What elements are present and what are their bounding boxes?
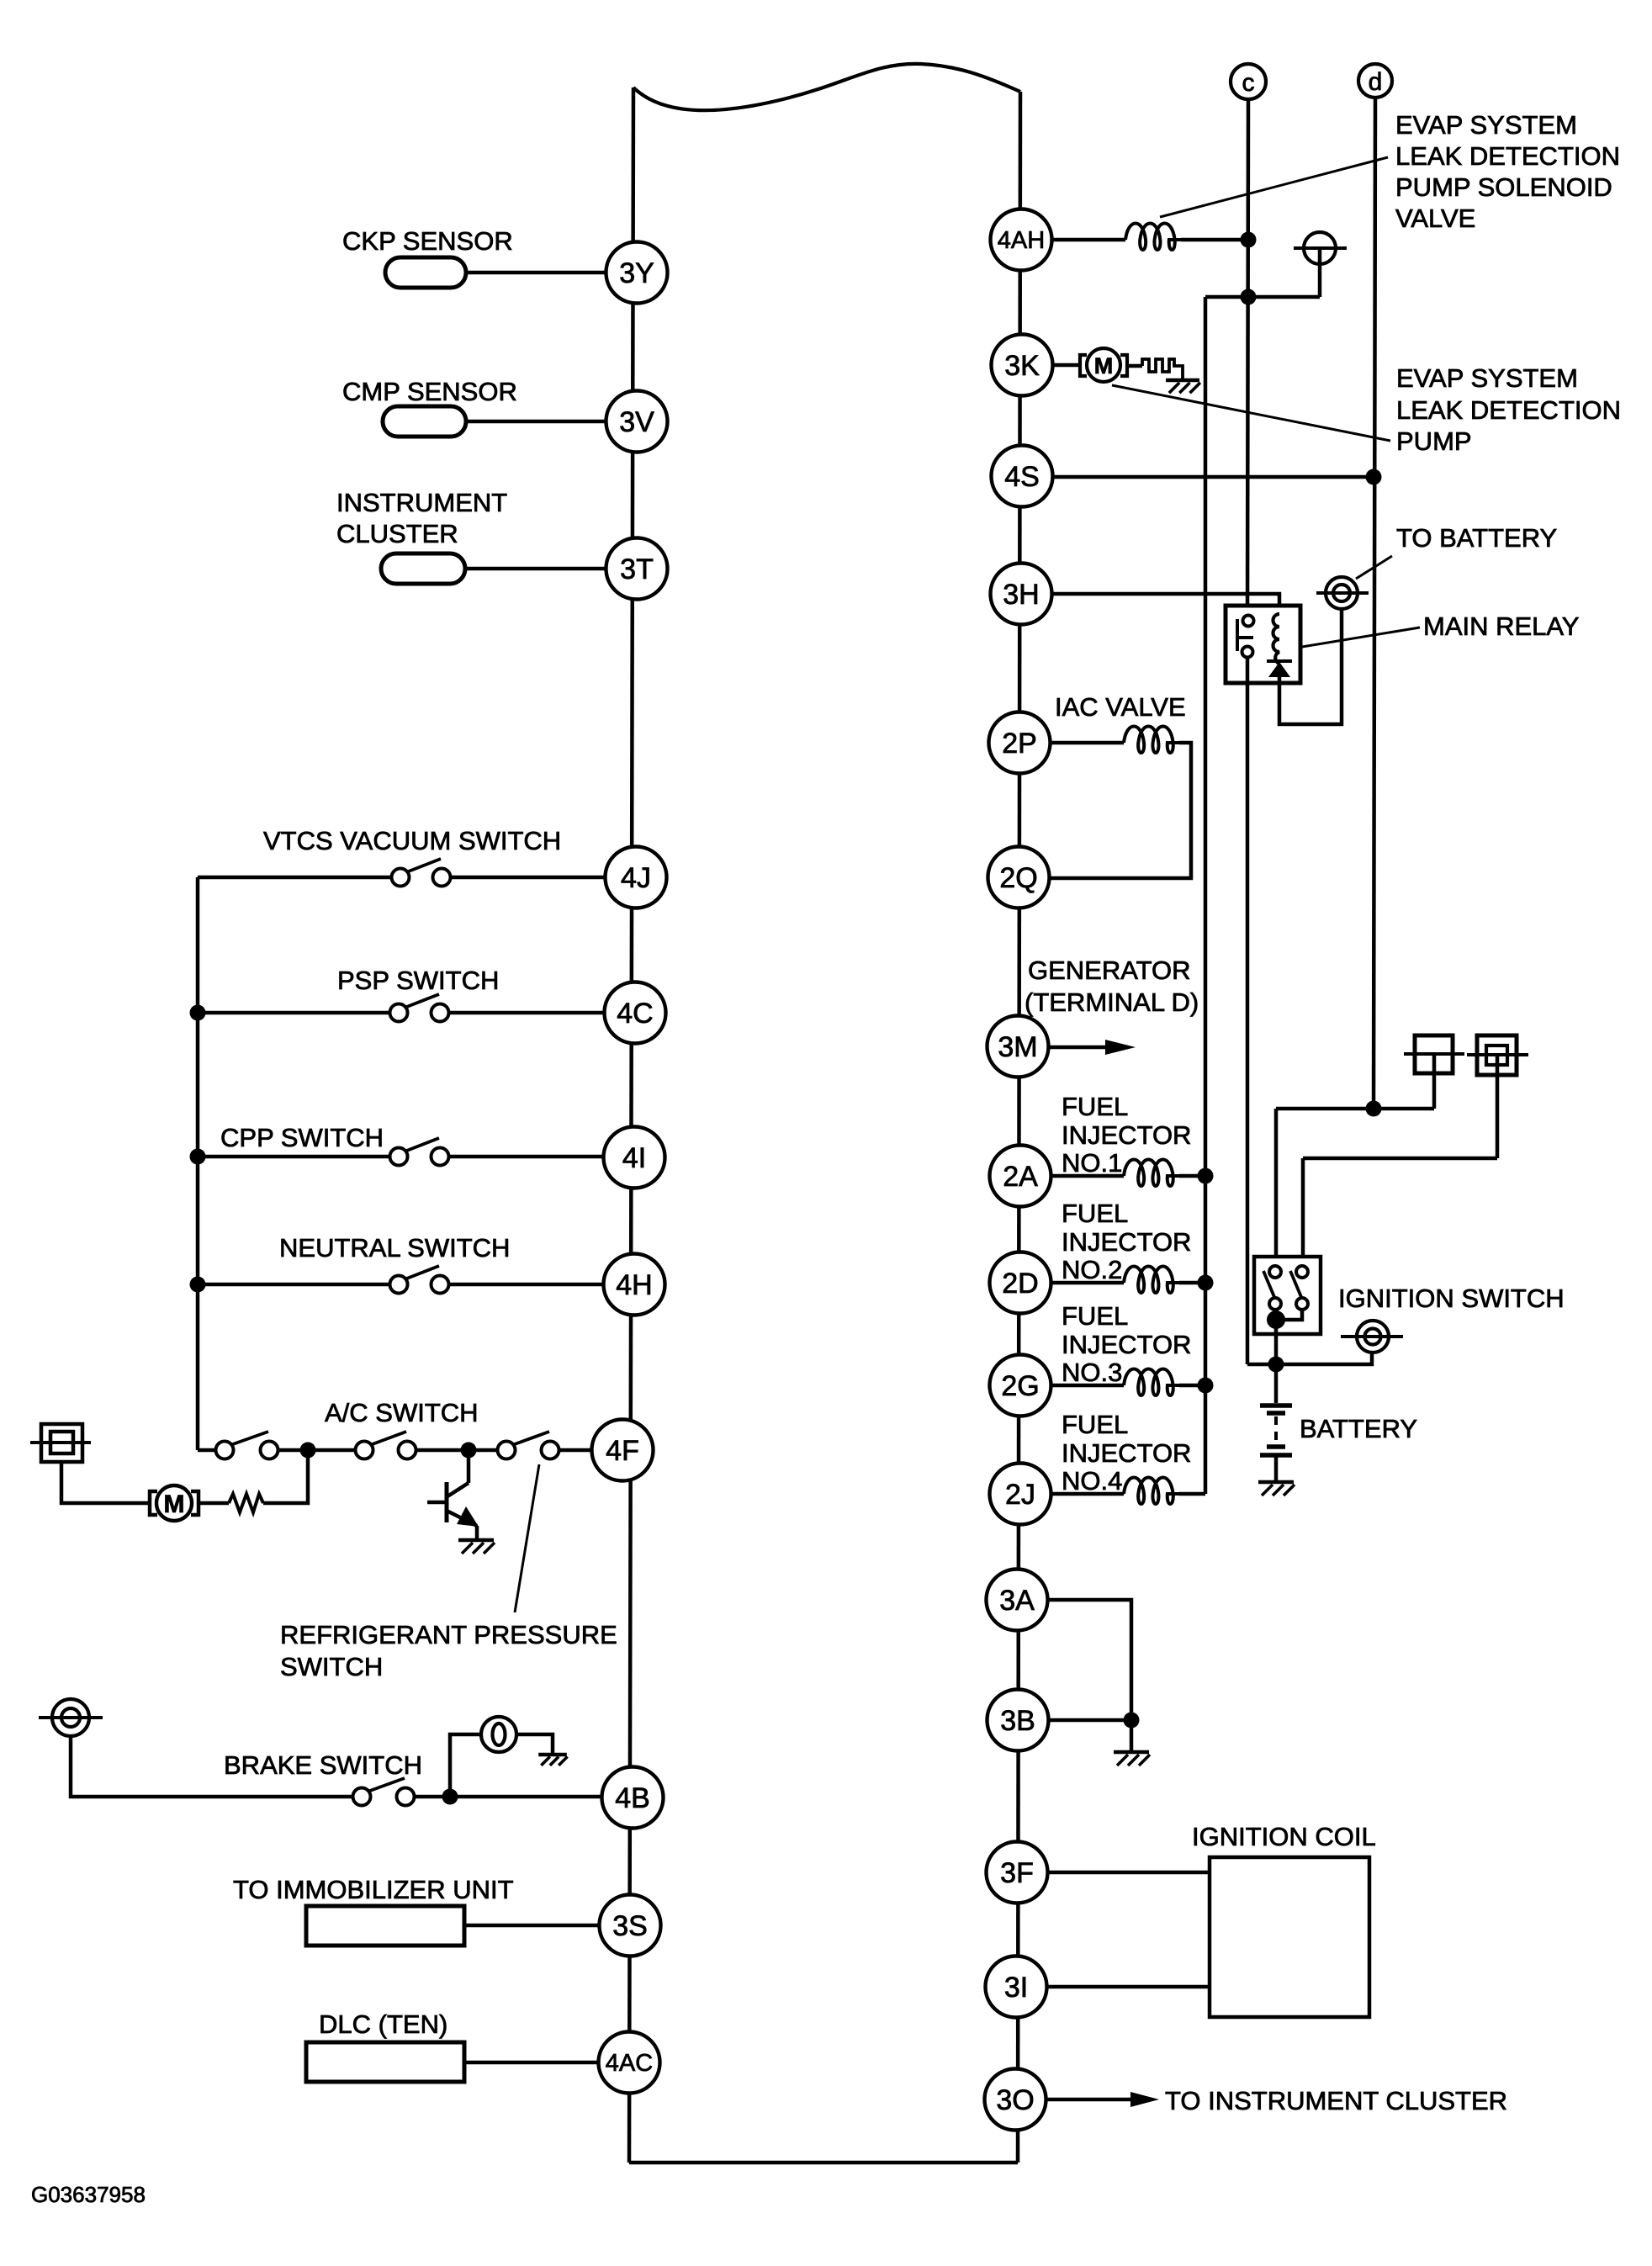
wire refrigerant pressure switch to 4F <box>559 1448 592 1453</box>
wire 3O arrow line <box>1046 2098 1130 2102</box>
wire 2J to injector coil <box>1051 1492 1124 1496</box>
wire connector cross line <box>30 1441 91 1444</box>
svg-text:INJECTOR: INJECTOR <box>1062 1227 1191 1257</box>
terminal 4S <box>992 446 1053 507</box>
terminal 3I <box>986 1956 1047 2018</box>
svg-text:3H: 3H <box>1003 579 1039 611</box>
wire ECM top wavy edge <box>633 64 1020 110</box>
wire brake switch to 4B <box>414 1795 602 1799</box>
svg-text:TO INSTRUMENT CLUSTER: TO INSTRUMENT CLUSTER <box>1165 2086 1507 2115</box>
wire connector right stem <box>1496 1055 1500 1158</box>
transistor Q1 base bar <box>445 1482 449 1522</box>
ground (EVAP pump) <box>1166 379 1199 383</box>
battery B1 dashed middle <box>1274 1416 1278 1443</box>
junction d line / relay output wire <box>1366 1101 1382 1117</box>
svg-text:G03637958: G03637958 <box>31 2182 146 2207</box>
terminal 4H <box>604 1254 665 1316</box>
wire EVAP feed jumper <box>1205 295 1320 299</box>
wire ECM bottom edge <box>629 2161 1018 2165</box>
wire first to second switch <box>278 1448 356 1453</box>
gauge (brake warning) circle-0 <box>481 1717 516 1752</box>
inductor fuel injector NO.3 coil <box>1124 1369 1179 1396</box>
svg-text:CKP SENSOR: CKP SENSOR <box>342 226 513 256</box>
ignition switch contact top-right <box>1296 1266 1308 1278</box>
wire d line <box>1374 98 1375 1109</box>
svg-text:d: d <box>1369 68 1383 96</box>
wire battery node down to battery <box>1274 1364 1279 1403</box>
svg-text:2G: 2G <box>1001 1370 1039 1402</box>
leader TO BATTERY <box>1356 556 1392 579</box>
motor M (condenser fan) brackets <box>150 1491 157 1515</box>
terminal 4J <box>606 847 667 908</box>
motor M (condenser fan) <box>156 1485 192 1521</box>
svg-text:NO.1: NO.1 <box>1062 1148 1122 1178</box>
connector (to fuse block) right inner <box>1486 1046 1507 1065</box>
wire c line to battery node to key terminal <box>1247 1353 1372 1364</box>
svg-text:FUEL: FUEL <box>1062 1301 1128 1331</box>
motor M (EVAP leak detection pump) <box>1087 348 1120 382</box>
switch BRAKE switch <box>353 1788 371 1806</box>
wire emitter to ground <box>475 1526 479 1540</box>
svg-text:2A: 2A <box>1003 1161 1038 1193</box>
svg-text:GENERATOR: GENERATOR <box>1028 956 1191 985</box>
connector box immobilizer unit <box>306 1906 464 1946</box>
ground (battery) <box>1258 1480 1294 1485</box>
junction left bus / neutral row <box>190 1277 206 1293</box>
wire 3M arrow line <box>1048 1046 1128 1050</box>
terminal 2Q <box>988 847 1050 908</box>
battery B1 plate 3 <box>1267 1444 1285 1449</box>
inductor L1 (EVAP leak detection pump solenoid valve) <box>1125 224 1181 251</box>
junction c line / EVAP feed jumper <box>1241 289 1257 305</box>
svg-text:4F: 4F <box>606 1435 639 1467</box>
svg-text:4C: 4C <box>617 998 653 1030</box>
wire left bus to CPP switch <box>198 1155 390 1159</box>
svg-text:3K: 3K <box>1004 350 1040 382</box>
relay K1 contact (top, c line) <box>1243 616 1254 627</box>
terminal 3K <box>992 335 1053 396</box>
wire IAC coil loop to 2Q <box>1049 743 1191 878</box>
svg-text:FUEL: FUEL <box>1062 1410 1128 1439</box>
battery B1 negative long plate <box>1260 1453 1292 1458</box>
wire 4S to d line <box>1051 475 1374 479</box>
terminal 2D <box>990 1252 1051 1314</box>
svg-text:NO.2: NO.2 <box>1062 1255 1122 1284</box>
arrow to instrument cluster <box>1130 2092 1159 2107</box>
svg-text:3T: 3T <box>620 553 654 585</box>
svg-text:EVAP SYSTEM: EVAP SYSTEM <box>1395 110 1577 140</box>
wire down to ignition switch contact a <box>1274 1109 1279 1266</box>
ignition switch contact top-left <box>1269 1266 1281 1278</box>
svg-text:NEUTRAL SWITCH: NEUTRAL SWITCH <box>279 1233 510 1263</box>
wire instrument cluster to 3T <box>465 567 606 571</box>
terminal 3O <box>985 2069 1046 2131</box>
svg-text:INJECTOR: INJECTOR <box>1062 1330 1191 1359</box>
transistor Q1 collector <box>447 1483 469 1496</box>
svg-text:LEAK DETECTION: LEAK DETECTION <box>1395 141 1620 171</box>
wire 3F to ignition coil <box>1047 1871 1210 1875</box>
arrow to generator <box>1105 1040 1136 1055</box>
terminal symbol ignition switch battery feed (double circle) <box>1357 1321 1389 1353</box>
transistor Q1 emitter with arrow <box>447 1511 477 1526</box>
svg-text:(TERMINAL D): (TERMINAL D) <box>1025 987 1199 1017</box>
svg-text:4B: 4B <box>615 1782 650 1814</box>
terminal 3T <box>606 538 668 600</box>
wire main-relay output to ignition switch (y=1318) <box>1276 1107 1434 1111</box>
ground (ECM 3A/3B) <box>1114 1750 1149 1755</box>
svg-text:BRAKE SWITCH: BRAKE SWITCH <box>224 1750 422 1780</box>
diode D1 (relay suppression) <box>1267 659 1292 663</box>
battery B1 plate 2 <box>1267 1411 1285 1416</box>
svg-text:3S: 3S <box>612 1910 648 1942</box>
leader EVAP pump label <box>1112 385 1390 441</box>
terminal 2P <box>989 712 1051 774</box>
svg-text:3A: 3A <box>999 1585 1035 1617</box>
svg-text:CPP SWITCH: CPP SWITCH <box>220 1123 384 1152</box>
svg-text:3I: 3I <box>1004 1972 1028 2004</box>
wire 2D to injector coil <box>1051 1281 1124 1285</box>
wire gauge to ground <box>516 1734 553 1754</box>
wire 3B to ground stub <box>1048 1718 1131 1723</box>
svg-text:IAC VALVE: IAC VALVE <box>1055 692 1186 722</box>
junction injector supply / NO.3 <box>1198 1378 1214 1394</box>
connector (to fuse block) left <box>1415 1035 1453 1073</box>
svg-text:c: c <box>1242 69 1255 97</box>
wire junction up to gauge <box>450 1734 481 1797</box>
connector capsule instrument cluster <box>381 553 465 584</box>
wire left bus to VTCS switch <box>198 876 392 880</box>
svg-text:NO.3: NO.3 <box>1062 1358 1122 1387</box>
wire motor to resistor <box>199 1501 229 1506</box>
wire 2G to injector coil <box>1051 1384 1124 1388</box>
wire resistor up to A/C row junction <box>263 1450 308 1503</box>
wire ECM left edge (ECM bus) <box>629 87 633 2163</box>
wire accessory feed (y=1377) <box>1303 1157 1497 1161</box>
wire ground stub down <box>1130 1720 1134 1752</box>
svg-text:3F: 3F <box>1000 1857 1034 1889</box>
wire connector right cross line <box>1467 1053 1528 1056</box>
svg-text:INJECTOR: INJECTOR <box>1062 1120 1191 1150</box>
svg-text:M: M <box>164 1490 185 1518</box>
svg-text:NO.4: NO.4 <box>1062 1466 1122 1496</box>
wire pump motor to heater element <box>1127 364 1142 368</box>
wire ECM right edge (ECM bus) <box>1018 92 1020 2163</box>
terminal 3V <box>606 391 668 453</box>
terminal 3A <box>987 1570 1048 1631</box>
wire DLC to 4AC <box>464 2061 599 2065</box>
svg-text:2P: 2P <box>1002 728 1037 760</box>
svg-text:2D: 2D <box>1002 1268 1038 1300</box>
switch IGNITION SWITCH box <box>1254 1257 1321 1334</box>
connector capsule CMP sensor <box>383 406 466 437</box>
switch CPP switch <box>390 1148 408 1166</box>
terminal symbol TO BATTERY (double circle) <box>1326 577 1358 609</box>
svg-text:TO BATTERY: TO BATTERY <box>1396 523 1557 553</box>
terminal 2J <box>990 1464 1051 1525</box>
wire VTCS switch to 4J <box>451 876 606 880</box>
inductor fuel injector NO.1 coil <box>1124 1160 1179 1187</box>
wire 3H to relay coil <box>1051 594 1279 614</box>
leader MAIN RELAY <box>1302 627 1420 647</box>
wire 2A to injector coil <box>1051 1174 1124 1178</box>
junction left bus / CPP row <box>190 1149 206 1165</box>
svg-text:A/C SWITCH: A/C SWITCH <box>325 1398 479 1427</box>
terminal 3Y <box>606 242 668 304</box>
wire 3I to ignition coil <box>1046 1985 1210 1989</box>
node c <box>1231 64 1266 99</box>
resistor (fan dropping resistor) <box>229 1494 263 1512</box>
switch refrigerant pressure switch <box>498 1442 516 1459</box>
transistor Q1 base lead <box>427 1501 447 1505</box>
relay K1 armature <box>1236 619 1239 651</box>
wire neutral switch to 4H <box>449 1283 603 1287</box>
svg-text:PSP SWITCH: PSP SWITCH <box>337 966 499 995</box>
wire CPP switch to 4I <box>449 1155 604 1159</box>
wire c line upper segment <box>1247 99 1248 622</box>
wire relay coil to battery terminal <box>1279 609 1342 724</box>
svg-text:3Y: 3Y <box>619 257 654 289</box>
connector box DLC <box>306 2042 464 2082</box>
wire second to third switch <box>416 1448 498 1453</box>
ignition switch contact bottom-right <box>1296 1298 1308 1310</box>
wire solenoid coil to c line <box>1181 238 1248 242</box>
battery B1 positive long plate <box>1260 1403 1292 1408</box>
svg-text:PUMP SOLENOID: PUMP SOLENOID <box>1395 172 1612 202</box>
inductor fuel injector NO.2 coil <box>1124 1267 1179 1294</box>
terminal 4F <box>592 1420 654 1481</box>
svg-text:EVAP SYSTEM: EVAP SYSTEM <box>1396 363 1578 393</box>
motor M (EVAP leak detection pump) brackets <box>1080 355 1087 376</box>
svg-text:3V: 3V <box>619 406 654 438</box>
switch PSP switch <box>390 1004 408 1022</box>
wire left bus to PSP switch <box>198 1011 390 1015</box>
relay K1 contact (bottom, c line) <box>1242 647 1253 658</box>
connector capsule CKP sensor <box>385 257 466 288</box>
svg-text:4AH: 4AH <box>998 227 1045 254</box>
wire left bus corner to refrigerant switch row <box>198 1448 216 1453</box>
junction left bus / PSP row <box>190 1005 206 1021</box>
svg-text:M: M <box>1094 353 1114 379</box>
wire down to ignition switch contact b <box>1301 1158 1305 1266</box>
inductor L2 (IAC valve) <box>1124 727 1179 754</box>
component IGNITION COIL box <box>1210 1857 1369 2017</box>
svg-text:4S: 4S <box>1004 461 1040 493</box>
ignition switch blade left <box>1263 1271 1274 1297</box>
svg-text:IGNITION SWITCH: IGNITION SWITCH <box>1338 1284 1565 1313</box>
svg-text:4AC: 4AC <box>606 2050 653 2077</box>
svg-text:CMP SENSOR: CMP SENSOR <box>342 377 517 406</box>
svg-text:FUEL: FUEL <box>1062 1092 1128 1121</box>
terminal 3M <box>987 1016 1049 1077</box>
svg-text:REFRIGERANT PRESSURE: REFRIGERANT PRESSURE <box>280 1620 617 1649</box>
wire 3K to pump motor <box>1051 363 1080 368</box>
terminal 2A <box>990 1146 1051 1207</box>
terminal 3H <box>991 564 1052 625</box>
switch VTCS vacuum switch <box>392 869 410 887</box>
svg-text:2J: 2J <box>1005 1479 1035 1511</box>
svg-text:INJECTOR: INJECTOR <box>1062 1438 1191 1468</box>
wire 4AH to solenoid coil <box>1051 238 1125 242</box>
svg-text:SWITCH: SWITCH <box>280 1652 383 1681</box>
ground (A/C transistor emitter) <box>458 1538 494 1543</box>
wire connector down to fan motor <box>61 1462 149 1503</box>
svg-text:MAIN RELAY: MAIN RELAY <box>1423 612 1579 641</box>
ignition switch blade right <box>1290 1271 1301 1297</box>
wire 2P to IAC coil <box>1050 741 1124 745</box>
wire battery to ground <box>1274 1457 1279 1482</box>
relay K1 coil <box>1273 614 1280 664</box>
wire immobilizer to 3S <box>464 1924 600 1928</box>
junction injector supply / NO.1 <box>1198 1168 1214 1184</box>
svg-text:CLUSTER: CLUSTER <box>336 519 458 548</box>
leader refrigerant pressure switch <box>515 1464 539 1612</box>
ignition switch contact bottom-left <box>1269 1298 1281 1310</box>
wire injector NO.1 coil to supply line <box>1179 1174 1205 1178</box>
svg-text:PUMP: PUMP <box>1396 426 1472 456</box>
junction c line / 4AH row <box>1241 232 1257 248</box>
terminal 3F <box>987 1842 1048 1903</box>
junction A/C row / condenser fan branch <box>300 1443 316 1459</box>
wire ignition common down to battery node <box>1274 1320 1279 1364</box>
wire c line lower segment <box>1246 652 1250 1364</box>
svg-text:TO IMMOBILIZER UNIT: TO IMMOBILIZER UNIT <box>233 1875 514 1904</box>
node d <box>1358 64 1392 98</box>
svg-text:VALVE: VALVE <box>1395 204 1475 233</box>
wire left bus to neutral switch <box>198 1283 390 1287</box>
switch A/C switch <box>356 1442 373 1459</box>
terminal 4AH <box>991 209 1052 271</box>
terminal 2G <box>990 1355 1051 1416</box>
junction ground stub / 3B row <box>1124 1713 1140 1729</box>
svg-text:BATTERY: BATTERY <box>1300 1414 1417 1443</box>
wire stop-lamp terminal down/right to brake switch <box>71 1736 353 1797</box>
switch NEUTRAL switch <box>390 1276 408 1294</box>
wire CMP sensor to 3V <box>466 420 606 424</box>
wire junction down to transistor collector <box>467 1450 471 1483</box>
junction injector supply / NO.2 <box>1198 1275 1214 1291</box>
wire injector NO.2 coil to supply line <box>1179 1281 1205 1285</box>
wire injector NO.4 coil to supply line <box>1179 1492 1205 1496</box>
wire PSP switch to 4C <box>449 1011 605 1015</box>
junction battery node <box>1268 1357 1284 1373</box>
svg-text:LEAK DETECTION: LEAK DETECTION <box>1396 395 1621 425</box>
connector (to fuse block) right outer <box>1477 1035 1517 1075</box>
terminal 4B <box>602 1767 664 1829</box>
relay K1 (main relay) box <box>1226 606 1300 683</box>
wire bottom-right contact to common <box>1278 1310 1302 1320</box>
junction brake row / gauge branch <box>442 1789 458 1805</box>
svg-text:VTCS VACUUM SWITCH: VTCS VACUUM SWITCH <box>263 826 561 855</box>
switch (A/C row first contact set) <box>216 1442 234 1459</box>
wire injector supply line (x=1433) <box>1204 297 1208 1494</box>
wire 3A to ground stub <box>1047 1600 1131 1720</box>
terminal symbol (EVAP pump feed) <box>1304 232 1336 264</box>
terminal 4C <box>605 982 666 1044</box>
leader EVAP solenoid valve label <box>1160 157 1388 217</box>
svg-text:IGNITION COIL: IGNITION COIL <box>1192 1822 1376 1851</box>
connector (condenser fan) outer square <box>41 1424 82 1462</box>
wire CKP sensor to 3Y <box>466 271 606 275</box>
svg-text:2Q: 2Q <box>999 862 1037 894</box>
svg-text:4J: 4J <box>621 862 651 894</box>
junction ignition switch common <box>1267 1310 1285 1329</box>
terminal 4AC <box>599 2032 660 2094</box>
ground (brake gauge) <box>538 1753 567 1757</box>
wire connector left stem <box>1432 1054 1437 1109</box>
resistive element (pump reference) <box>1142 359 1183 380</box>
wire left bus vertical <box>196 877 200 1450</box>
svg-text:FUEL: FUEL <box>1062 1199 1128 1228</box>
terminal 3S <box>600 1895 661 1956</box>
svg-text:DLC (TEN): DLC (TEN) <box>319 2009 447 2039</box>
svg-text:4H: 4H <box>616 1269 652 1301</box>
svg-text:3B: 3B <box>1000 1705 1035 1737</box>
junction A/C row / transistor branch <box>461 1443 477 1459</box>
svg-text:INSTRUMENT: INSTRUMENT <box>336 488 507 517</box>
terminal 3B <box>987 1690 1049 1751</box>
connector (condenser fan) inner square <box>50 1432 73 1453</box>
svg-text:3O: 3O <box>996 2084 1034 2116</box>
terminal 4I <box>604 1127 665 1189</box>
svg-text:4I: 4I <box>622 1142 646 1174</box>
terminal symbol (stop lamp feed) <box>52 1699 89 1736</box>
svg-text:3M: 3M <box>998 1031 1037 1063</box>
wire injector NO.3 coil to supply line <box>1179 1384 1205 1388</box>
inductor fuel injector NO.4 coil <box>1124 1478 1179 1505</box>
junction d line / 4S row <box>1366 469 1382 485</box>
